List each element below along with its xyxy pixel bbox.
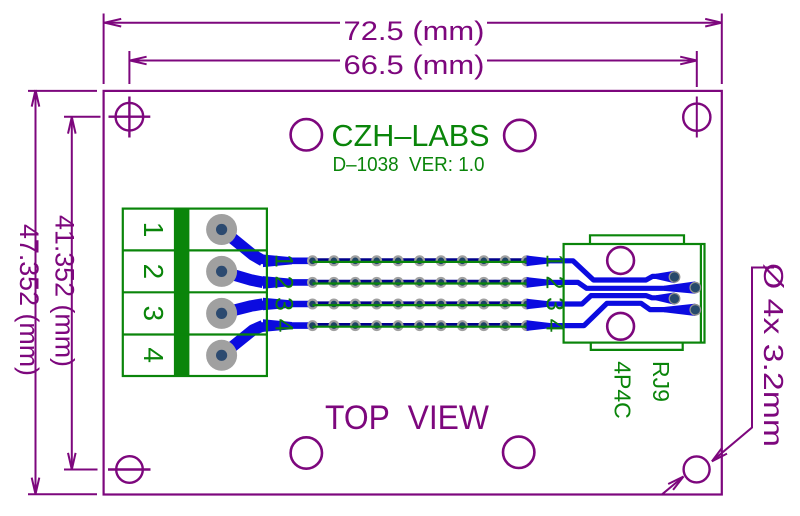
- wire: net 4 row overlay: [313, 326, 527, 328]
- svg-text:RJ9: RJ9: [648, 361, 674, 402]
- RJ9 pad 4: [689, 304, 701, 316]
- dimension 72.5 (mm): [104, 14, 722, 85]
- RJ9 pad 2: [689, 282, 701, 294]
- mounting hole top-right: [683, 104, 710, 131]
- svg-text:1: 1: [269, 254, 297, 268]
- svg-text:2: 2: [269, 275, 297, 289]
- svg-text:3: 3: [269, 297, 297, 311]
- svg-text:D–1038 VER: 1.0: D–1038 VER: 1.0: [333, 153, 485, 176]
- svg-text:Ø 4x 3.2mm: Ø 4x 3.2mm: [758, 263, 789, 447]
- RJ9 pad 3: [669, 293, 681, 305]
- mounting hole bottom-right: [684, 456, 710, 482]
- wire: terminal pin 3 trace: [222, 304, 313, 313]
- wire: RJ9 pin 1 trace: [562, 261, 675, 283]
- terminal block TB1 outline: [123, 209, 267, 376]
- dimension 47.352 (mm): [28, 90, 97, 494]
- wire: net 2 to RJ9: [527, 277, 564, 288]
- pad row 4: [307, 320, 532, 331]
- RJ9 hole bottom: [607, 313, 634, 340]
- dimension 41.352 (mm): [64, 117, 101, 470]
- svg-text:3: 3: [138, 306, 169, 322]
- leader: hole diameter 4x 3.2mm: [712, 268, 774, 462]
- terminal pad 2: [206, 256, 237, 287]
- wire: terminal pin 1 trace: [222, 230, 313, 261]
- pad row 1: [307, 255, 532, 266]
- RJ9 hole top: [607, 247, 634, 274]
- wire: net 4 row line: [313, 323, 527, 326]
- dimension 66.5 (mm): [129, 51, 696, 138]
- svg-text:CZH–LABS: CZH–LABS: [332, 118, 490, 153]
- silkscreen hole bottom-left: [291, 437, 322, 468]
- wire: net 2 row overlay: [313, 282, 527, 284]
- pad row 3: [307, 299, 532, 310]
- wire: net 3 to RJ9: [527, 299, 564, 310]
- pad row 2: [307, 277, 532, 288]
- RJ9 pad 1: [669, 271, 681, 283]
- svg-text:1: 1: [138, 222, 169, 238]
- svg-text:47.352 (mm): 47.352 (mm): [14, 224, 44, 376]
- terminal block center bar: [174, 209, 190, 376]
- svg-text:41.352 (mm): 41.352 (mm): [50, 215, 80, 367]
- wire: net 1 row overlay: [313, 261, 527, 263]
- terminal pad 4: [206, 340, 237, 371]
- mounting hole top-left: [109, 97, 151, 138]
- wire: net 3 row overlay: [313, 304, 527, 306]
- svg-text:4: 4: [269, 319, 297, 333]
- mounting hole bottom-left: [108, 456, 151, 483]
- svg-text:TOP VIEW: TOP VIEW: [325, 399, 489, 437]
- wire: net 1 to RJ9: [527, 256, 564, 267]
- board outline: [104, 91, 722, 495]
- silkscreen hole bottom-right: [503, 437, 534, 468]
- svg-text:4: 4: [138, 347, 169, 363]
- wire: terminal pin 4 trace: [222, 326, 313, 356]
- wire: net 4 to RJ9: [527, 320, 564, 331]
- terminal pad 1: [206, 214, 237, 245]
- wire: RJ9 pin 3 trace: [562, 292, 675, 304]
- svg-text:72.5 (mm): 72.5 (mm): [344, 16, 485, 46]
- terminal block cell dividers: [123, 250, 267, 334]
- silkscreen hole top-right: [504, 120, 535, 151]
- svg-text:4P4C: 4P4C: [610, 361, 636, 419]
- wire: RJ9 pin 4 trace: [562, 303, 695, 325]
- wire: RJ9 pin 2 trace: [562, 281, 695, 293]
- svg-text:66.5 (mm): 66.5 (mm): [344, 50, 485, 80]
- RJ9 connector J1 outline: [564, 235, 705, 350]
- RJ9 label: [610, 361, 674, 419]
- wire: net 2 row line: [313, 280, 527, 283]
- terminal pad 3: [206, 298, 237, 329]
- wire: net 3 row line: [313, 301, 527, 304]
- wire: terminal pin 2 trace: [222, 271, 313, 282]
- wire: net 1 row line: [313, 258, 527, 261]
- svg-text:2: 2: [138, 264, 169, 280]
- silkscreen hole top-left: [291, 119, 322, 150]
